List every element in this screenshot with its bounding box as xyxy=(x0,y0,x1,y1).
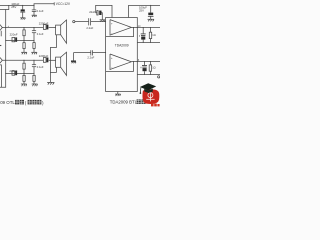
resistor R5 feedback ch2 lower xyxy=(23,74,25,84)
ground R2 xyxy=(21,52,27,54)
node feedback ch2 xyxy=(23,73,24,74)
resistor R1 feedback ch1 upper xyxy=(23,28,25,41)
ground R6 xyxy=(32,84,38,86)
op-amp U1b triangle xyxy=(110,54,131,70)
resistor R8 1ohm out2 xyxy=(149,62,151,75)
input terminal IN1 right circuit xyxy=(73,21,75,23)
op-amp U1 IC box TDA2009 xyxy=(106,18,138,92)
capacitor C1 100uF 25V label xyxy=(11,2,19,9)
wire input 2 xyxy=(74,53,91,61)
wire speaker SP1 return xyxy=(50,35,56,82)
capacitor C11 100uF electrolytic xyxy=(148,5,154,19)
svg-text:0.1uF: 0.1uF xyxy=(37,65,44,69)
capacitor C11 100uF 25V label xyxy=(139,5,147,12)
wire feedback bus ch1 xyxy=(6,40,34,42)
wire return 1 right xyxy=(137,42,160,43)
capacitor C12 zobel out1 xyxy=(140,28,146,43)
svg-text:-: - xyxy=(111,66,112,70)
node feedback ch1 xyxy=(23,40,24,41)
resistor R3 zobel ch1 xyxy=(33,41,35,53)
svg-text:09 OTL: 09 OTL xyxy=(0,100,15,105)
speaker SP1 xyxy=(56,20,67,43)
svg-text:0.1uF: 0.1uF xyxy=(37,9,44,13)
ground R3 xyxy=(31,52,37,54)
capacitor C3 2200uF series xyxy=(43,25,48,30)
wire internal stub mid (cut) xyxy=(0,45,1,47)
op-amp U2 box left circuit (cut off) xyxy=(0,5,9,87)
svg-text:1Ω: 1Ω xyxy=(152,33,155,37)
wire output channel 2 xyxy=(2,60,55,61)
ground C10 xyxy=(100,20,105,22)
terminal right edge xyxy=(158,76,160,78)
capacitor C7 0.1uF zobel ch2 xyxy=(32,60,36,73)
capacitor C8 220uF series xyxy=(12,71,17,75)
capacitor C6 2200uF series xyxy=(43,58,48,63)
wire output 1 right xyxy=(131,27,160,28)
svg-text:TDA2009 BTL: TDA2009 BTL xyxy=(110,100,138,105)
op-amp U2a output tip xyxy=(0,25,2,31)
capacitor C2 0.1uF xyxy=(32,5,36,15)
wire output channel 1 xyxy=(2,25,55,28)
logo watermark red stamp xyxy=(140,83,160,106)
capacitor C5 220uF series xyxy=(12,37,17,41)
ground input 2 xyxy=(71,61,76,63)
node input2 pin xyxy=(105,52,106,53)
capacitor C9 2.2uF input 1 xyxy=(89,18,106,25)
svg-text:0.1uF: 0.1uF xyxy=(37,32,44,36)
node zobel ch1 xyxy=(33,40,34,41)
op-amp U2b output tip xyxy=(0,58,2,64)
resistor R6 zobel ch2 xyxy=(33,74,35,84)
wire speaker SP2 return xyxy=(50,67,56,72)
wire input 1 xyxy=(75,21,89,23)
op-amp U1a triangle xyxy=(110,20,131,36)
svg-text:25V: 25V xyxy=(11,5,16,9)
ground speakers common xyxy=(47,82,54,84)
svg-text:2.2uF: 2.2uF xyxy=(87,55,94,59)
ground IC bottom xyxy=(115,92,121,97)
svg-text:1Ω: 1Ω xyxy=(152,66,155,70)
svg-text:-: - xyxy=(111,31,112,35)
wire output 2 right xyxy=(131,61,160,62)
capacitor C13 2.2uF input 2 xyxy=(91,50,106,55)
capacitor C1 100uF electrolytic xyxy=(20,5,25,18)
svg-text:2.2uF: 2.2uF xyxy=(86,26,93,30)
node input1 pin xyxy=(105,21,106,22)
ground C11 xyxy=(148,19,155,21)
ground for C2 xyxy=(32,15,37,17)
wire internal stub upper (cut) xyxy=(0,31,2,37)
caption left: 09 OTL jiefa (shuangshengdao) xyxy=(0,100,44,105)
svg-text:220uF: 220uF xyxy=(10,32,18,36)
wire return 2 right xyxy=(137,74,160,75)
capacitor C4 0.1uF zobel ch1 xyxy=(32,28,36,41)
resistor R4 feedback ch2 upper xyxy=(23,60,25,73)
capacitor C14 zobel out2 xyxy=(141,62,147,75)
node zobel ch2 xyxy=(33,73,34,74)
wire VCC rail right circuit xyxy=(129,5,160,18)
speaker SP2 xyxy=(56,52,67,75)
ground for C1 xyxy=(20,18,25,20)
svg-text:TDA2009: TDA2009 xyxy=(115,44,129,48)
wire feedback U1b xyxy=(106,62,134,72)
node pins on left box edge xyxy=(5,27,6,74)
resistor R7 1ohm out1 xyxy=(149,28,151,43)
wire feedback U1a xyxy=(106,28,134,37)
wire feedback bus ch2 xyxy=(6,73,34,75)
wire VCC rail left circuit xyxy=(0,2,54,5)
svg-text:+: + xyxy=(111,56,113,60)
svg-text:22uF: 22uF xyxy=(89,10,95,14)
caption right: TDA2009 BTL jiefa xyxy=(110,99,146,104)
svg-text:VCC=12V: VCC=12V xyxy=(56,2,71,6)
ground R5 xyxy=(21,84,27,86)
capacitor C10 22uF ripple xyxy=(96,5,112,19)
wire internal stub lower (cut) xyxy=(0,65,1,87)
resistor R2 feedback ch1 lower xyxy=(23,41,25,53)
svg-text:25V: 25V xyxy=(139,8,144,12)
svg-text:+: + xyxy=(111,21,113,25)
